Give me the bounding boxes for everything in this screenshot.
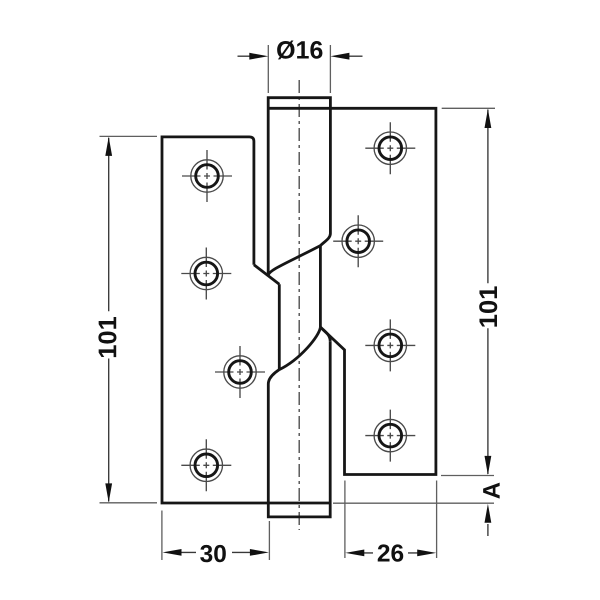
dimension 30 line — [180, 551, 250, 553]
dimension 30 extension lines — [162, 511, 270, 561]
left leaf plate — [162, 137, 330, 503]
left leaf knuckle shoulder diagonal — [254, 265, 279, 284]
dimension A lower arrow — [487, 524, 489, 536]
screw hole 5 (right leaf top) — [365, 122, 415, 174]
dimension 30 arrows — [163, 549, 269, 556]
dimension text 30 — [200, 545, 226, 562]
dimension 26 arrows — [345, 550, 436, 557]
dimension 101 right arrows — [485, 109, 492, 475]
dimension text Ø16 — [277, 41, 322, 60]
dimension 26 extension lines — [345, 481, 437, 559]
centerline (hinge pin axis) — [298, 80, 300, 530]
dimension Ø16 extension lines — [268, 45, 330, 93]
pin right edge — [319, 246, 322, 328]
lower knuckle helix seam — [279, 327, 320, 369]
dimension 101 right extension lines — [441, 108, 495, 475]
upper knuckle barrel — [268, 98, 330, 276]
lower knuckle barrel — [268, 341, 330, 517]
upper knuckle corner curve — [320, 234, 330, 246]
dimension text 101 right — [479, 286, 497, 326]
lower knuckle left corner curve — [268, 370, 279, 384]
dimension 101 left arrows — [105, 137, 112, 503]
screw hole 4 (left leaf bottom) — [181, 439, 231, 491]
dimension 101 right line — [487, 110, 489, 475]
dimension 101 left extension lines — [100, 136, 158, 502]
dimension Ø16 arrow right — [347, 55, 363, 57]
dimension Ø16 arrow left — [238, 55, 253, 57]
dimension 101 left line — [108, 138, 110, 502]
dimension A extension line — [333, 502, 494, 504]
lower knuckle right corner curve — [320, 327, 330, 341]
screw hole 7 (right leaf third) — [365, 319, 415, 371]
dimension text 101 left — [98, 317, 116, 357]
screw hole 2 (left leaf second) — [181, 248, 231, 300]
screw hole 3 (left leaf third) — [215, 346, 265, 398]
screw hole 6 (right leaf second) — [333, 215, 383, 267]
upper knuckle helix seam — [268, 246, 320, 276]
screw hole 1 (left leaf top) — [182, 150, 232, 202]
pin left edge — [278, 284, 281, 369]
dimension text 26 — [378, 544, 404, 561]
dimension text A — [483, 483, 500, 499]
right leaf plate — [268, 108, 436, 474]
screw hole 8 (right leaf bottom) — [365, 410, 415, 462]
dimension 26 line — [363, 552, 419, 554]
